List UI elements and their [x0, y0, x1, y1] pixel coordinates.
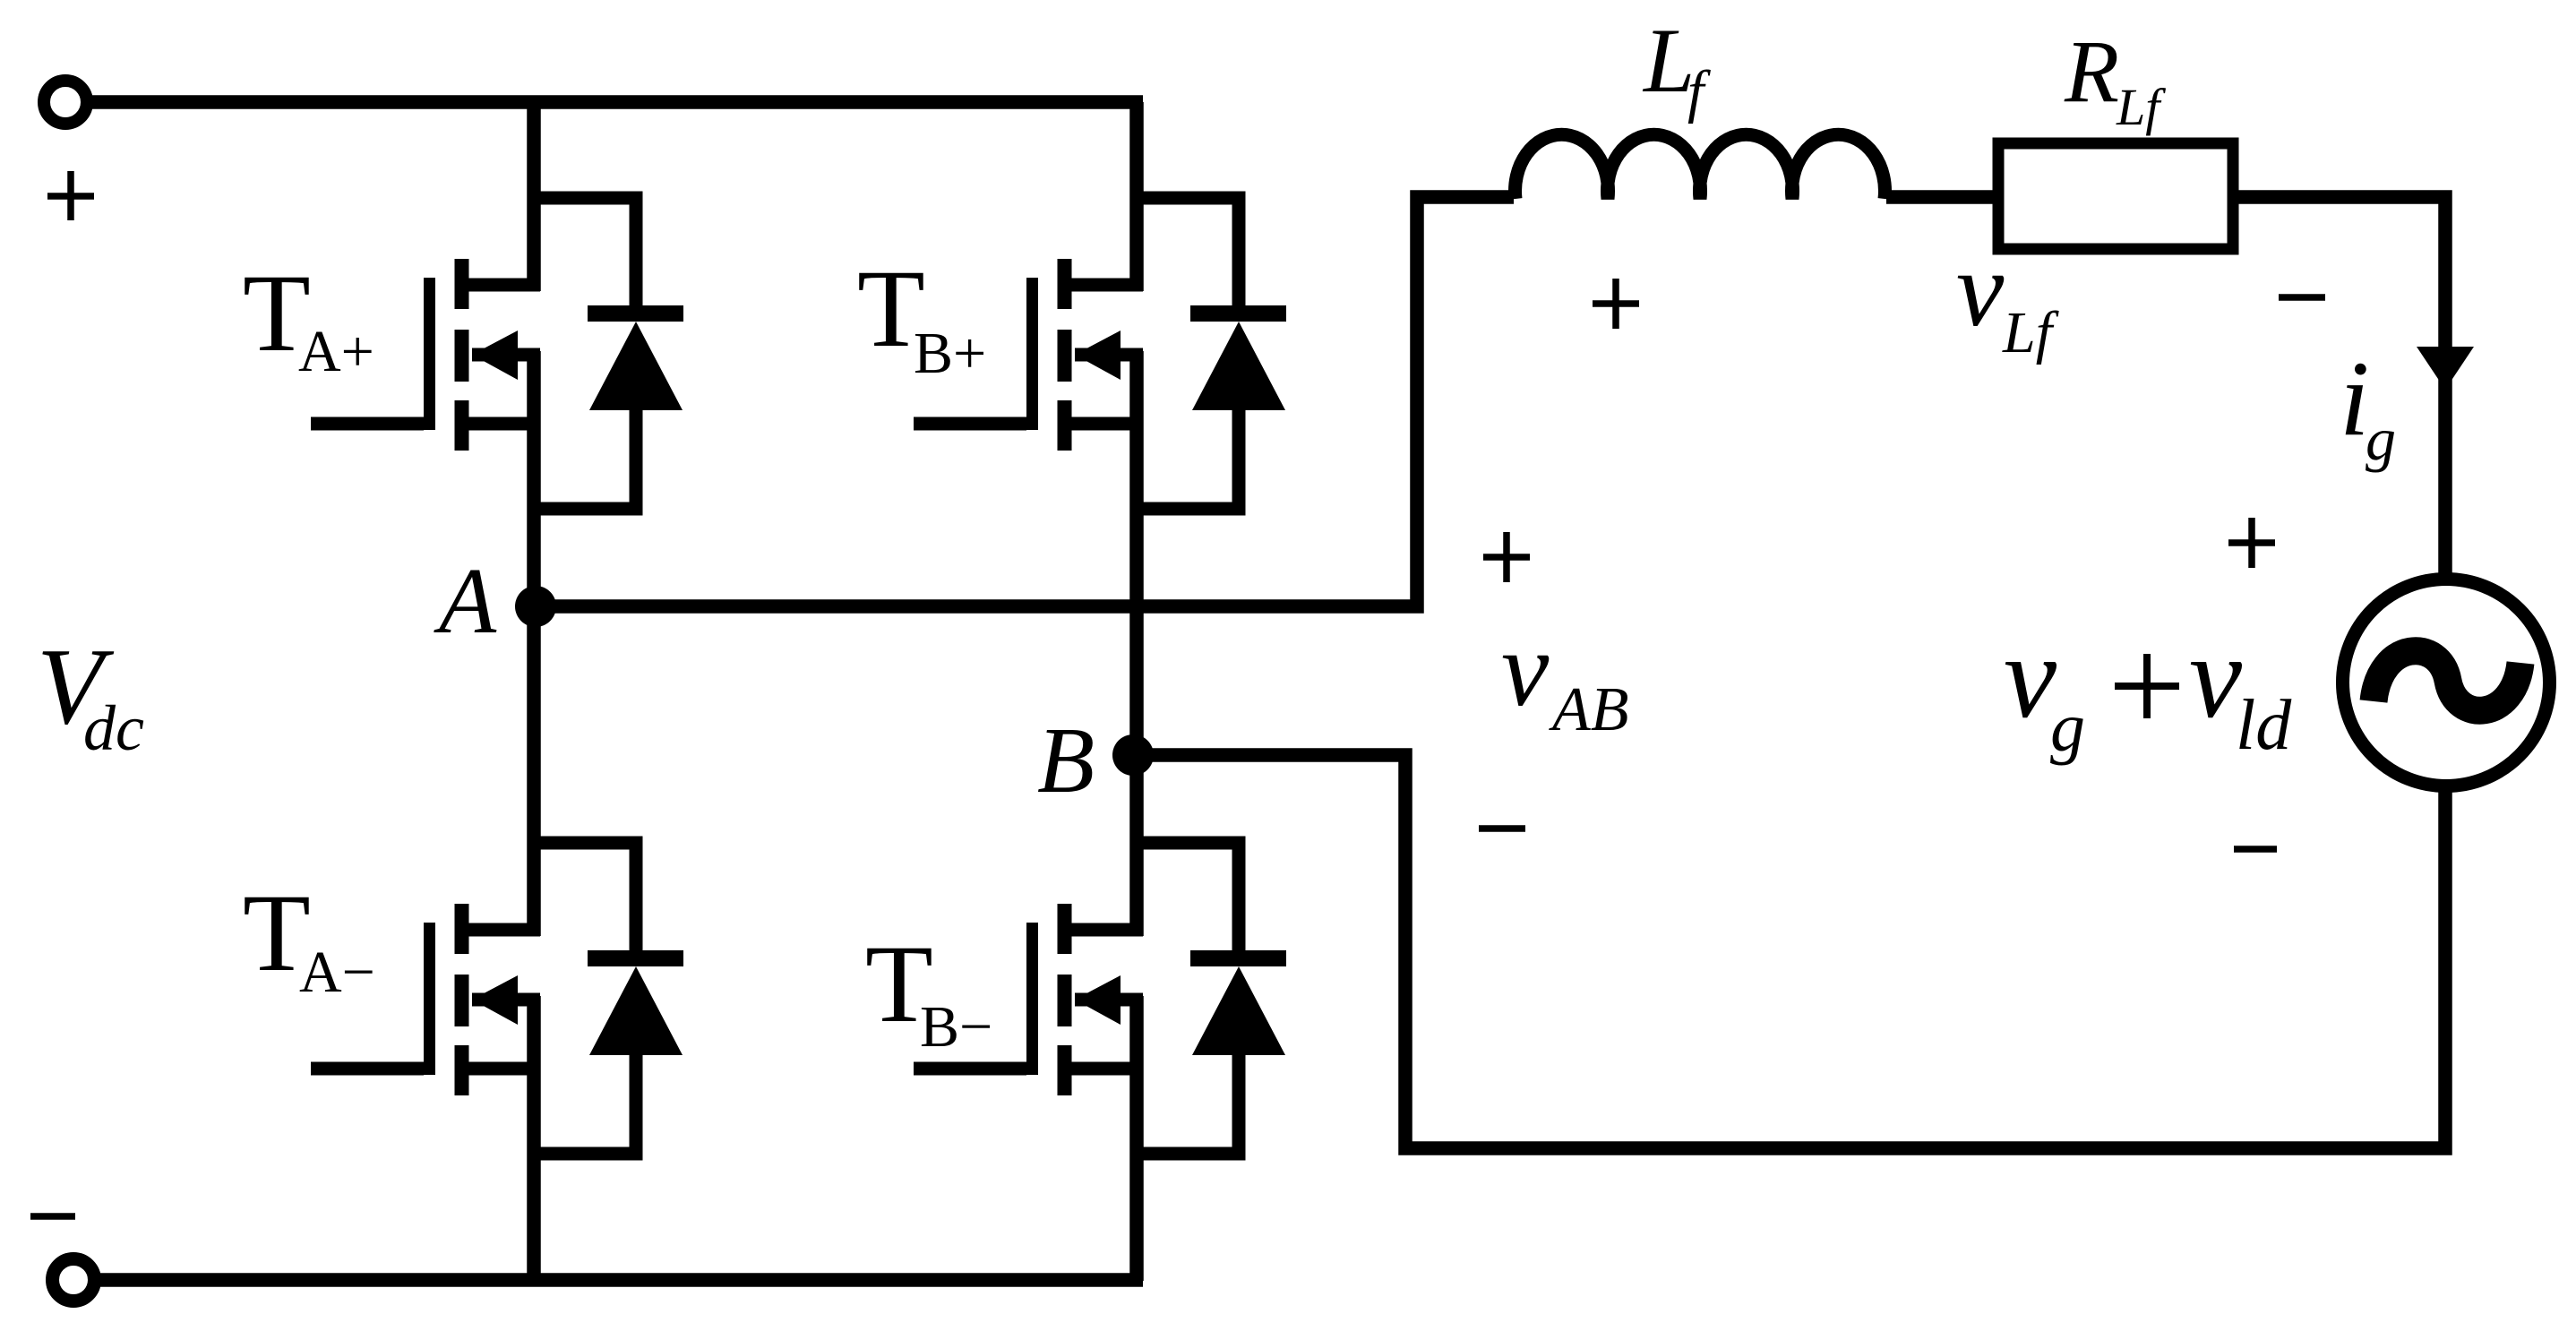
- svg-text:A+: A+: [298, 319, 374, 384]
- svg-text:Lf: Lf: [2002, 300, 2059, 365]
- svg-text:dc: dc: [83, 692, 144, 764]
- label Vdc: [37, 626, 144, 764]
- terminal - (bottom-left DC input): [53, 1259, 95, 1301]
- AC source v_g+v_ld (grid): [2343, 580, 2550, 786]
- wire inductor to resistor: [1886, 190, 1998, 204]
- wire A-leg lower rail: [527, 996, 541, 1281]
- label Lf: [1642, 10, 1711, 125]
- svg-text:ld: ld: [2236, 686, 2292, 765]
- svg-text:AB: AB: [1549, 675, 1629, 744]
- resistor R_Lf: [1998, 143, 2233, 249]
- svg-text:B−: B−: [920, 994, 992, 1060]
- svg-text:A: A: [434, 548, 497, 653]
- wire node A to inductor (output phase A): [536, 197, 1514, 606]
- label v_Lf: [1956, 229, 2059, 365]
- terminal + (top-left DC input): [44, 81, 87, 124]
- label + (top-left polarity): [47, 171, 94, 220]
- node A junction dot: [515, 586, 556, 627]
- svg-text:v: v: [2004, 610, 2057, 743]
- label i_g: [2340, 339, 2396, 473]
- wire B-leg upper rail: [1129, 102, 1144, 291]
- wire top DC rail: [92, 95, 1143, 109]
- label - (AC source bottom polarity): [2234, 846, 2277, 853]
- label v_AB: [1501, 609, 1629, 744]
- wire A-leg upper rail: [527, 102, 541, 291]
- transistor T_B+ with body diode D_B+: [914, 198, 1286, 509]
- label T_B-: [865, 923, 992, 1060]
- arrow i_g (current direction): [2417, 347, 2474, 390]
- label v_g + v_ld: [2004, 610, 2292, 766]
- label T_A+: [243, 252, 374, 384]
- svg-text:g: g: [2050, 688, 2085, 766]
- svg-text:v: v: [1501, 609, 1550, 728]
- transistor T_A- with body diode D_A-: [311, 843, 683, 1154]
- label T_A-: [243, 872, 375, 1005]
- transistor T_A+ with body diode D_A+: [311, 198, 683, 509]
- wire resistor to AC source (top right): [2233, 197, 2445, 573]
- label - (bottom-left polarity): [30, 1213, 75, 1220]
- svg-text:v: v: [1956, 229, 2005, 348]
- wire node B to AC source bottom loop: [1137, 755, 2445, 1148]
- svg-text:R: R: [2064, 21, 2119, 121]
- transistor T_B- with body diode D_B-: [914, 843, 1286, 1154]
- label T_B+: [857, 247, 986, 386]
- label + (v_AB top polarity): [1483, 532, 1530, 582]
- label + (v_Lf left polarity): [1593, 279, 1639, 329]
- label - (v_AB bottom polarity): [1479, 825, 1525, 832]
- wire B-leg lower rail: [1129, 996, 1144, 1281]
- svg-text:B: B: [1037, 708, 1095, 812]
- svg-text:v: v: [2189, 610, 2243, 743]
- wire bottom DC rail: [100, 1273, 1143, 1287]
- inductor Lf: [1516, 134, 1885, 199]
- node B junction dot: [1112, 734, 1154, 776]
- svg-text:B+: B+: [914, 321, 986, 386]
- label R_Lf: [2064, 21, 2166, 136]
- svg-text:g: g: [2366, 405, 2396, 473]
- svg-text:A−: A−: [299, 940, 375, 1005]
- svg-text:Lf: Lf: [2116, 78, 2166, 136]
- wire A-leg middle rail (through node A): [527, 351, 541, 936]
- label + (AC source top polarity): [2228, 518, 2275, 568]
- wire B-leg middle rail (through node B): [1129, 351, 1144, 936]
- label - (v_Lf right polarity): [2279, 294, 2325, 301]
